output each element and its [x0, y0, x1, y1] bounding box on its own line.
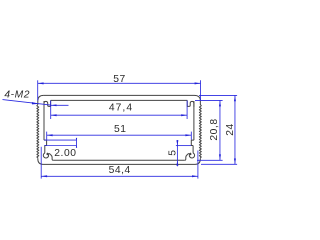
dim 24 line	[234, 95, 236, 164]
svg-text:4-M2: 4-M2	[4, 89, 30, 100]
arrow 5 bottom (outside, pointing up)	[176, 160, 178, 165]
svg-text:57: 57	[113, 74, 126, 85]
dim 20,8 top extension	[195, 99, 223, 101]
dim 5 vertical line	[176, 140, 178, 166]
dim 47,4 line	[51, 114, 187, 116]
dim 47,4 right extension	[186, 101, 188, 120]
arrow 57 right	[195, 82, 201, 84]
dim 51 line	[47, 134, 192, 136]
arrow 4-M2 leader at boss block	[51, 104, 57, 106]
arrow 20,8 top	[219, 100, 221, 106]
dim 54,4 right extension	[197, 151, 199, 179]
arrow 4-M2 leader at wall	[32, 102, 39, 104]
ceiling (inner top surface)	[51, 99, 188, 101]
arrow 2.00 bottom tick	[76, 146, 77, 148]
svg-text:5: 5	[168, 149, 179, 155]
svg-text:20,8: 20,8	[209, 118, 220, 140]
arrow 57 left	[38, 82, 44, 84]
floor (inner bottom surface)	[53, 159, 185, 161]
dim 2.00 vertical line	[76, 138, 78, 147]
arrow 47,4 left	[51, 114, 57, 116]
arrow 20,8 bottom	[219, 154, 221, 160]
arrow 24 bottom	[234, 158, 236, 164]
svg-text:24: 24	[225, 123, 236, 136]
profile outer shell top edge with rounded corners	[44, 95, 201, 100]
svg-text:2.00: 2.00	[54, 148, 76, 159]
dim 20,8 bottom extension	[197, 159, 223, 161]
dim 54,4 left extension	[40, 147, 42, 179]
svg-text:51: 51	[114, 124, 127, 135]
arrow 24 top	[234, 95, 236, 101]
dim 54,4 line	[41, 175, 198, 177]
dim 51 right extension	[190, 132, 192, 140]
svg-text:47,4: 47,4	[109, 103, 133, 114]
top-right screw boss block	[187, 100, 194, 107]
bottom-right outer corner and bottom edge	[38, 159, 201, 165]
arrow 5 top (outside, pointing down)	[176, 140, 178, 145]
svg-text:54,4: 54,4	[109, 165, 131, 176]
left PCB ridge	[44, 140, 47, 145]
arrow 47,4 right	[181, 114, 187, 116]
left wall serrated outer edge	[37, 101, 39, 159]
arrow 54,4 left	[41, 175, 47, 177]
dim 57 line	[38, 82, 201, 84]
bottom-left screw channel	[43, 146, 53, 161]
top-left screw boss block	[44, 100, 51, 107]
arrow 51 left	[47, 134, 53, 136]
left wall inner face	[43, 101, 45, 140]
arrow 2.00 top tick	[76, 138, 77, 140]
right wall inner face	[193, 101, 195, 140]
4-M2 leader tail	[51, 104, 69, 106]
dim 24 bottom extension	[201, 163, 237, 165]
dim 47,4 left extension	[50, 101, 52, 120]
dim 2.00 top extension	[44, 139, 76, 141]
dim 57 right extension	[200, 80, 202, 101]
right wall serrated outer edge	[199, 101, 201, 159]
4-M2 leader line	[3, 100, 51, 106]
dim 57 left extension	[37, 80, 39, 100]
dim 5 upper extension	[176, 145, 191, 147]
dim 2.00 bottom extension	[44, 145, 76, 147]
dim 24 top extension	[199, 94, 237, 96]
dim 20,8 line	[219, 100, 221, 160]
top-left outer corner	[38, 95, 44, 100]
arrow 51 right	[185, 134, 191, 136]
bottom-right screw channel	[185, 146, 195, 161]
dim 51 left extension	[46, 132, 48, 140]
arrow 54,4 right	[192, 175, 198, 177]
right PCB ridge	[191, 140, 194, 145]
